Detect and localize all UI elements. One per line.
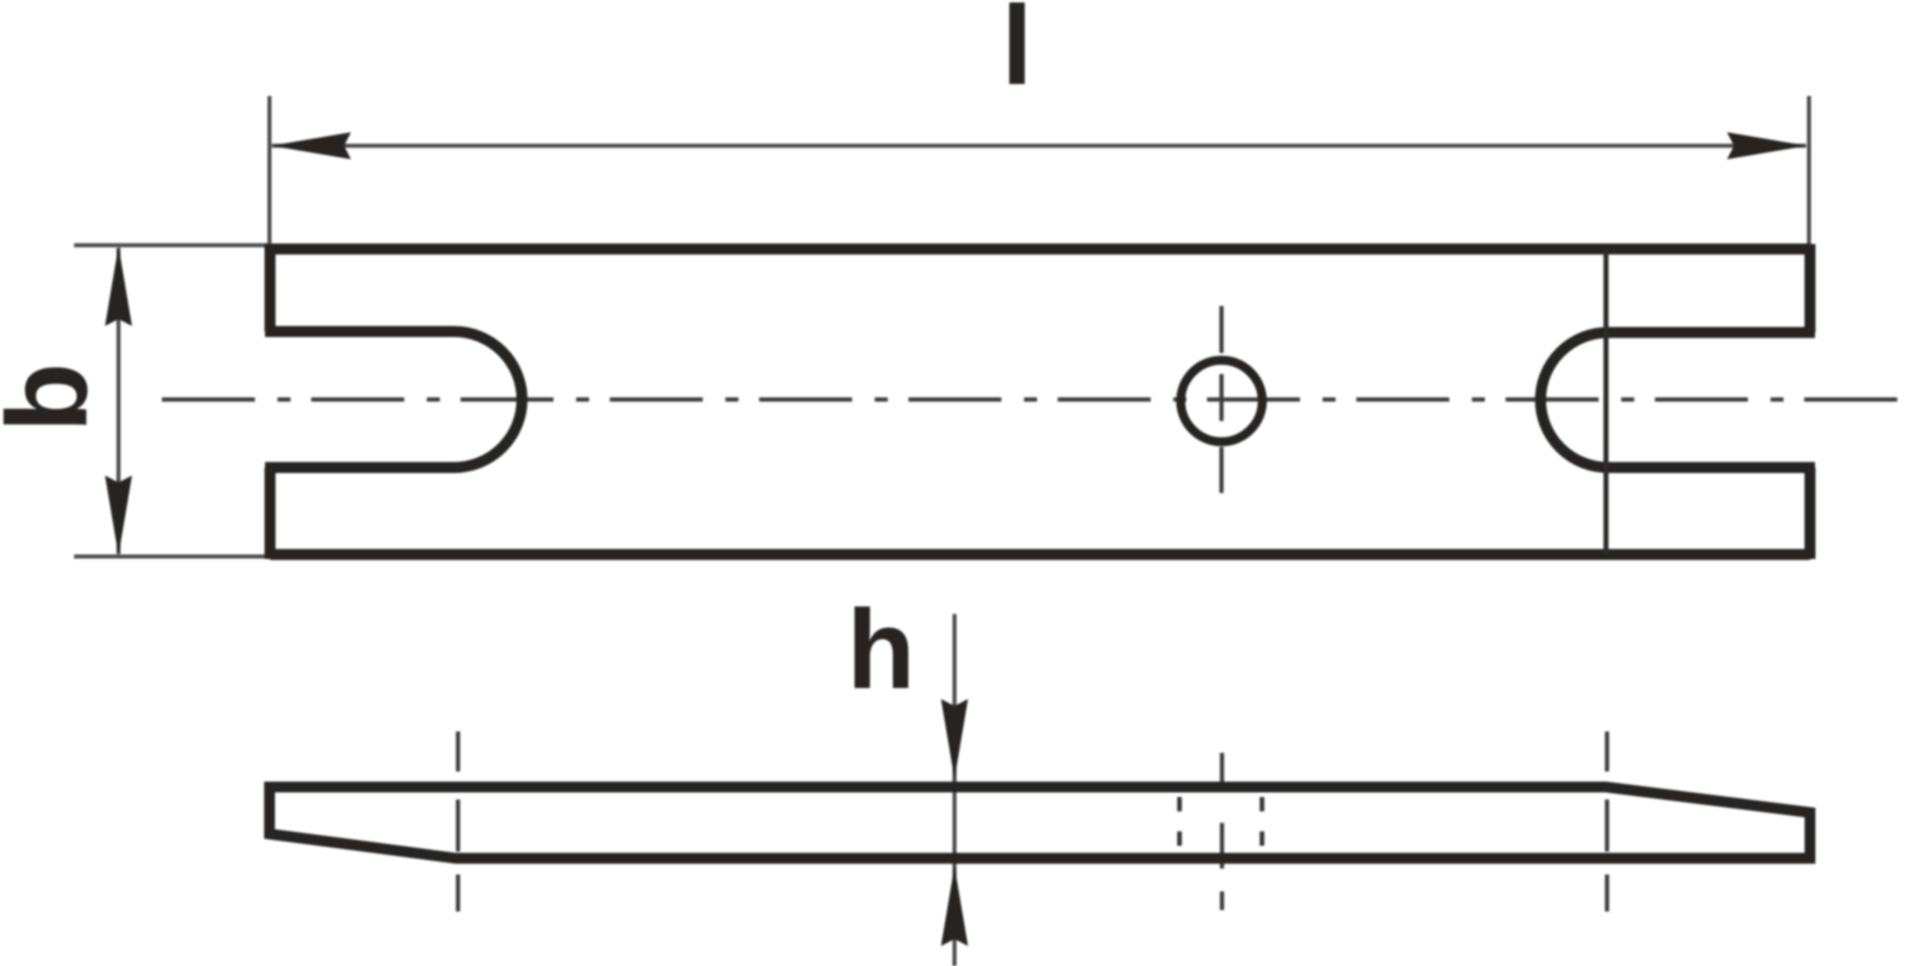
arrowhead l right <box>1727 132 1807 159</box>
dimension line l <box>272 144 1806 148</box>
arrowhead h up <box>941 866 968 946</box>
hidden hole edge left (side view) <box>1177 797 1182 846</box>
part outline top view: left edge lower <box>265 468 276 560</box>
centerline vertical (hole, top view) <box>1219 306 1223 493</box>
part outline top view: right edge lower <box>1805 468 1816 560</box>
arrowhead l left <box>271 132 351 159</box>
centerline horizontal (main axis, top view) <box>162 397 1898 401</box>
part outline side view <box>270 787 1811 858</box>
left slot (open slot with semicircular end) <box>265 332 522 468</box>
extension line l right <box>1807 96 1811 246</box>
extension line l left <box>268 96 272 246</box>
centerline vertical side view left (chamfer start) <box>456 732 460 913</box>
centerline vertical side view hole axis <box>1220 753 1224 910</box>
part outline top view: right edge upper <box>1805 244 1816 333</box>
extension line b bottom <box>74 555 268 559</box>
centerline vertical side view right (chamfer start) <box>1605 732 1609 913</box>
hidden hole edge right (side view) <box>1260 797 1265 846</box>
dimension line b <box>117 248 121 554</box>
right slot (open slot with semicircular end) <box>1541 333 1816 468</box>
svg-text:b: b <box>0 363 112 433</box>
extension line b top <box>74 243 268 247</box>
part outline top view: left edge upper <box>265 244 276 332</box>
dimension line h <box>953 614 957 966</box>
arrowhead b down <box>105 476 132 556</box>
arrowhead b up <box>105 246 132 326</box>
svg-text:l: l <box>1001 0 1032 108</box>
chamfer edge line (top view, right) <box>1604 249 1609 554</box>
arrowhead h down <box>941 699 968 779</box>
hole (top view) <box>1181 360 1263 442</box>
part outline top view: bottom edge <box>270 549 1810 560</box>
svg-text:h: h <box>847 587 915 712</box>
part outline top view: top edge <box>270 244 1810 255</box>
